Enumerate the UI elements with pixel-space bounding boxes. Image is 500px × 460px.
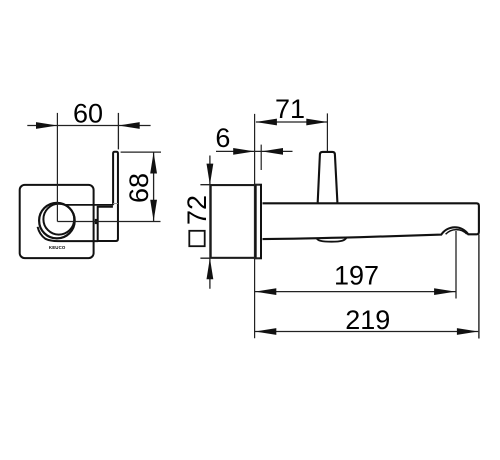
spout outline (263, 203, 479, 239)
lever joint line (light) (113, 203, 118, 205)
svg-text:60: 60 (73, 98, 103, 128)
spout tip extension line (478, 235, 480, 339)
dim 72: bottom extension line (200, 257, 259, 259)
svg-text:KEUCO: KEUCO (49, 245, 66, 250)
center line vertical (60 dim extension to knob center) (56, 113, 58, 222)
wall reference line (254, 114, 256, 338)
svg-text:71: 71 (275, 94, 305, 124)
knob outer circle (39, 203, 75, 239)
handle stem connector (95, 219, 98, 224)
dim 72: square symbol (189, 231, 204, 246)
dim 197: dimension line with arrows (255, 288, 456, 295)
svg-text:68: 68 (124, 173, 154, 203)
dim 72: dimension line with arrows (207, 156, 214, 289)
dim 71: label (275, 94, 305, 124)
dim 219: dimension line with arrows (255, 328, 478, 335)
dim 197: label (334, 261, 379, 291)
dim 72: top extension line (200, 184, 259, 186)
KEUCO logo text (49, 245, 66, 250)
concealed body rect (211, 185, 256, 258)
center line horizontal (57, 221, 160, 223)
aerator dome under spout (316, 237, 346, 242)
dim 6: label (215, 123, 230, 153)
escutcheon plate (rounded square) (20, 185, 94, 258)
dim 60: dimension line (27, 122, 150, 129)
dim 68: label (rotated) (124, 173, 154, 203)
dim 68: dimension line with arrows (150, 152, 157, 221)
handle top tangent line (65, 204, 114, 206)
handle bottom tangent line with hook around knob (38, 227, 98, 241)
dim 6: dimension line with arrows (216, 148, 293, 155)
mixing stem (trapezoid) (318, 152, 338, 203)
svg-text:197: 197 (334, 261, 379, 291)
dim 72: label (rotated) (182, 195, 212, 225)
knob inner circle (43, 204, 74, 235)
water stream line (455, 231, 457, 299)
dim 6: right extension line (260, 145, 262, 170)
stem extension line (326, 113, 328, 151)
svg-text:72: 72 (182, 195, 212, 225)
svg-text:6: 6 (215, 123, 230, 153)
dim 60: label (73, 98, 103, 128)
dim 71: dimension line with arrows (256, 119, 328, 126)
dim 60: right extension line (117, 113, 119, 149)
svg-text:219: 219 (345, 305, 390, 335)
handle lever and base block (98, 152, 118, 241)
wall flange rect (255, 185, 261, 259)
dim 68: top extension line (121, 151, 161, 153)
spout lip inner arc (446, 230, 467, 235)
dim 219: label (345, 305, 390, 335)
